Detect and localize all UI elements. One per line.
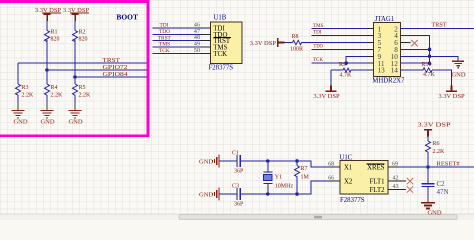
- capacitor C3: [232, 183, 244, 207]
- svg-text:2.2K: 2.2K: [79, 92, 92, 98]
- power 3.3V DSP (R2): [63, 7, 90, 21]
- junction R7 bottom: [295, 192, 299, 196]
- svg-text:10MHz: 10MHz: [275, 184, 294, 190]
- power 3.3V DSP (R10 pullup): [438, 86, 465, 100]
- wire R1 bottom: [46, 40, 48, 70]
- pin 43 FLT2: [388, 189, 406, 191]
- svg-text:36P: 36P: [234, 168, 244, 174]
- wire GND to C1: [220, 160, 237, 162]
- svg-text:F28377S: F28377S: [340, 197, 365, 204]
- wire net TRST horizontal: [18, 62, 147, 64]
- svg-text:C1: C1: [232, 151, 239, 157]
- svg-text:FLT1: FLT1: [370, 179, 385, 186]
- svg-text:36P: 36P: [234, 201, 244, 207]
- wire R9 down to power: [330, 70, 332, 85]
- svg-text:RESET#: RESET#: [437, 161, 461, 168]
- power 3.3V DSP (R8): [250, 38, 285, 47]
- junction pin12/gnd rail: [428, 61, 432, 65]
- wire R1 top: [46, 21, 48, 31]
- wire net TDI to JTAG: [312, 35, 374, 37]
- svg-text:47: 47: [194, 29, 200, 35]
- horizontal scrollbar: [0, 214, 474, 220]
- svg-text:47N: 47N: [437, 188, 449, 196]
- power port GND (C3): [199, 187, 219, 200]
- wire R8 to JTAG pin5: [302, 42, 374, 44]
- svg-text:14: 14: [391, 67, 399, 75]
- svg-text:F28377S: F28377S: [209, 65, 234, 72]
- svg-text:MHDR2X7: MHDR2X7: [372, 77, 405, 84]
- svg-text:820: 820: [51, 36, 60, 42]
- wire R3 top lead: [17, 63, 19, 84]
- power port GND (C1): [199, 154, 219, 167]
- wire R9 row pin13: [331, 69, 343, 71]
- junction GPIO72/R1: [45, 68, 49, 72]
- junction RESET node: [426, 165, 430, 169]
- ground GND (C2): [421, 197, 442, 217]
- svg-text:XRES: XRES: [367, 165, 385, 172]
- wire net GPIO84 horizontal: [75, 76, 147, 78]
- svg-text:R5: R5: [79, 85, 86, 91]
- svg-text:820: 820: [79, 36, 88, 42]
- svg-text:2.2K: 2.2K: [433, 149, 446, 155]
- svg-text:68: 68: [328, 162, 334, 168]
- resistor R10: [422, 62, 436, 78]
- pin 50 TCK: [200, 52, 210, 54]
- svg-text:TDI: TDI: [313, 30, 322, 36]
- junction pin10/gnd rail: [428, 55, 432, 59]
- svg-text:4.7K: 4.7K: [423, 72, 436, 78]
- pin 68 X1 stub: [330, 166, 340, 168]
- svg-text:100R: 100R: [290, 46, 303, 52]
- svg-text:3.3V DSP: 3.3V DSP: [250, 40, 277, 47]
- svg-text:C2: C2: [437, 180, 446, 188]
- junction crystal bottom: [266, 192, 270, 196]
- svg-text:R7: R7: [301, 166, 308, 172]
- svg-text:JTAG1: JTAG1: [375, 16, 394, 23]
- wire pin10 to GND: [401, 56, 459, 61]
- svg-text:TDI: TDI: [160, 23, 169, 29]
- svg-text:GPIO72: GPIO72: [103, 64, 128, 71]
- resistor R2: [73, 30, 88, 43]
- svg-text:R3: R3: [22, 85, 29, 91]
- svg-text:3.3V DSP: 3.3V DSP: [313, 93, 340, 100]
- crystal Y1: [263, 161, 293, 194]
- pin 48 TRST: [200, 40, 210, 42]
- svg-text:U1B: U1B: [214, 15, 227, 22]
- pin 42 FLT1: [388, 180, 406, 182]
- pin 46 TDI: [200, 27, 210, 29]
- svg-text:X2: X2: [344, 179, 353, 186]
- wire pin14 to R10: [401, 69, 424, 71]
- wire net GPIO72 horizontal: [47, 69, 147, 71]
- resistor R3: [16, 84, 35, 98]
- resistor R4: [45, 84, 64, 98]
- svg-text:42: 42: [393, 176, 399, 182]
- svg-text:2.2K: 2.2K: [22, 92, 35, 98]
- wire R9 to JTAG pin13: [351, 69, 374, 71]
- svg-text:R9: R9: [339, 62, 346, 68]
- svg-text:R6: R6: [433, 141, 440, 147]
- svg-text:TRST: TRST: [158, 35, 172, 41]
- wire R6 to RESET node: [427, 152, 429, 167]
- wire pin4 to gnd rail: [401, 36, 430, 64]
- wire R10 to power: [432, 70, 451, 85]
- svg-text:3.3V DSP: 3.3V DSP: [418, 121, 451, 128]
- svg-text:R1: R1: [51, 30, 58, 36]
- svg-text:TDO: TDO: [159, 29, 170, 35]
- ground GND (R5): [68, 95, 82, 125]
- junction GPIO84/R2: [73, 75, 77, 79]
- resistor R6: [426, 141, 446, 155]
- svg-text:TCK: TCK: [213, 51, 227, 58]
- svg-text:R8: R8: [292, 34, 299, 40]
- svg-text:69: 69: [392, 162, 398, 168]
- svg-text:Y1: Y1: [275, 175, 282, 181]
- svg-text:50: 50: [194, 48, 200, 54]
- wire TRST from pin2: [401, 28, 474, 30]
- svg-text:GPIO84: GPIO84: [103, 71, 129, 78]
- ground GND (R4): [40, 95, 54, 125]
- svg-text:R4: R4: [51, 85, 58, 91]
- capacitor C1: [232, 151, 244, 175]
- wire C1 to corner, down to X1: [241, 161, 330, 167]
- power 3.3V DSP (R9 pullup): [313, 86, 340, 100]
- wire net TDO to JTAG: [312, 48, 374, 50]
- power 3.3V DSP (R1): [35, 7, 62, 21]
- svg-text:TRST: TRST: [103, 57, 121, 64]
- wire GND to C3: [220, 193, 237, 195]
- ground GND (JTAG): [451, 61, 465, 78]
- wire net TDI: [153, 27, 201, 29]
- BOOT box frame: [0, 1, 148, 135]
- wire R2 top: [74, 21, 76, 31]
- junction R7 top: [295, 159, 299, 163]
- svg-text:BOOT: BOOT: [116, 15, 138, 22]
- svg-text:49: 49: [194, 42, 200, 48]
- resistor R5: [73, 84, 92, 98]
- svg-text:TCK: TCK: [159, 48, 170, 54]
- resistor R8: [290, 34, 303, 52]
- pin 69 XRES: [388, 166, 398, 168]
- no-connect X FLT2: [407, 186, 413, 192]
- wire C3 to corner, up to X2: [241, 181, 330, 194]
- wire R4 top lead: [46, 70, 48, 84]
- junction pin8/gnd rail: [428, 48, 432, 52]
- pin6 stub: [401, 42, 411, 44]
- svg-text:4.7K: 4.7K: [340, 72, 353, 78]
- svg-text:GND: GND: [68, 118, 82, 125]
- svg-text:U1C: U1C: [340, 154, 353, 161]
- svg-text:R2: R2: [79, 30, 86, 36]
- svg-text:GND: GND: [40, 118, 54, 125]
- wire net TCK: [153, 52, 201, 54]
- pin 66 X2 stub: [330, 180, 340, 182]
- svg-text:66: 66: [328, 176, 334, 182]
- svg-text:TMS: TMS: [159, 42, 171, 48]
- svg-text:2.2K: 2.2K: [51, 92, 64, 98]
- svg-text:GND: GND: [451, 72, 465, 79]
- wire R2 bottom: [74, 40, 76, 77]
- resistor R1: [45, 30, 60, 43]
- no-connect X FLT1: [407, 178, 413, 184]
- svg-text:TCK: TCK: [313, 57, 323, 63]
- svg-text:13: 13: [378, 67, 386, 75]
- wire net TDO: [153, 33, 201, 35]
- wire pin8: [401, 48, 430, 50]
- component U1C body: [340, 160, 388, 194]
- svg-text:3.3V DSP: 3.3V DSP: [438, 93, 465, 100]
- wire node to C2: [427, 167, 429, 183]
- wire TCK branch to pin9: [346, 56, 374, 63]
- JTAG pin stubs: [368, 29, 407, 70]
- junction crystal top: [266, 159, 270, 163]
- wire XRES to edge (RESET#): [398, 166, 474, 168]
- wire net TCK to JTAG pin11: [312, 62, 374, 64]
- svg-text:46: 46: [194, 23, 200, 29]
- svg-text:GND: GND: [427, 210, 441, 217]
- wire net TMS: [153, 46, 201, 48]
- wire power to R8: [285, 42, 293, 44]
- junction TCK branch: [344, 61, 348, 65]
- pin numbers right column: [391, 25, 399, 74]
- svg-text:43: 43: [393, 184, 399, 190]
- svg-text:X1: X1: [344, 165, 352, 172]
- svg-text:TRST: TRST: [432, 21, 447, 28]
- pin 49 TMS: [200, 46, 210, 48]
- svg-text:TMS: TMS: [313, 23, 324, 29]
- wire power to R6: [427, 136, 429, 141]
- ground GND (R3): [12, 95, 28, 125]
- wire C2 to GND: [427, 186, 429, 197]
- no-connect X pin6: [411, 40, 417, 46]
- svg-text:GND: GND: [199, 158, 213, 165]
- wire net TRST: [153, 40, 201, 42]
- wire pin12: [401, 62, 430, 64]
- svg-text:C3: C3: [232, 183, 239, 189]
- wire net TMS to JTAG: [312, 28, 374, 30]
- svg-text:TDO: TDO: [314, 44, 324, 50]
- resistor R9: [339, 62, 352, 79]
- svg-text:GND: GND: [199, 191, 213, 198]
- component U1B body: [210, 22, 242, 64]
- svg-text:R10: R10: [422, 62, 432, 68]
- connector JTAG1 body: [374, 22, 401, 76]
- capacitor C2: [422, 180, 449, 196]
- svg-text:48: 48: [194, 35, 200, 41]
- svg-text:FLT2: FLT2: [370, 187, 385, 194]
- resistor R7: [295, 161, 310, 194]
- pin 47 TDO: [200, 33, 210, 35]
- svg-text:GND: GND: [13, 118, 27, 125]
- pin numbers left column: [378, 25, 386, 74]
- svg-text:1M: 1M: [301, 174, 310, 180]
- power 3.3V DSP (R6): [418, 121, 451, 136]
- wire R5 top lead: [74, 77, 76, 84]
